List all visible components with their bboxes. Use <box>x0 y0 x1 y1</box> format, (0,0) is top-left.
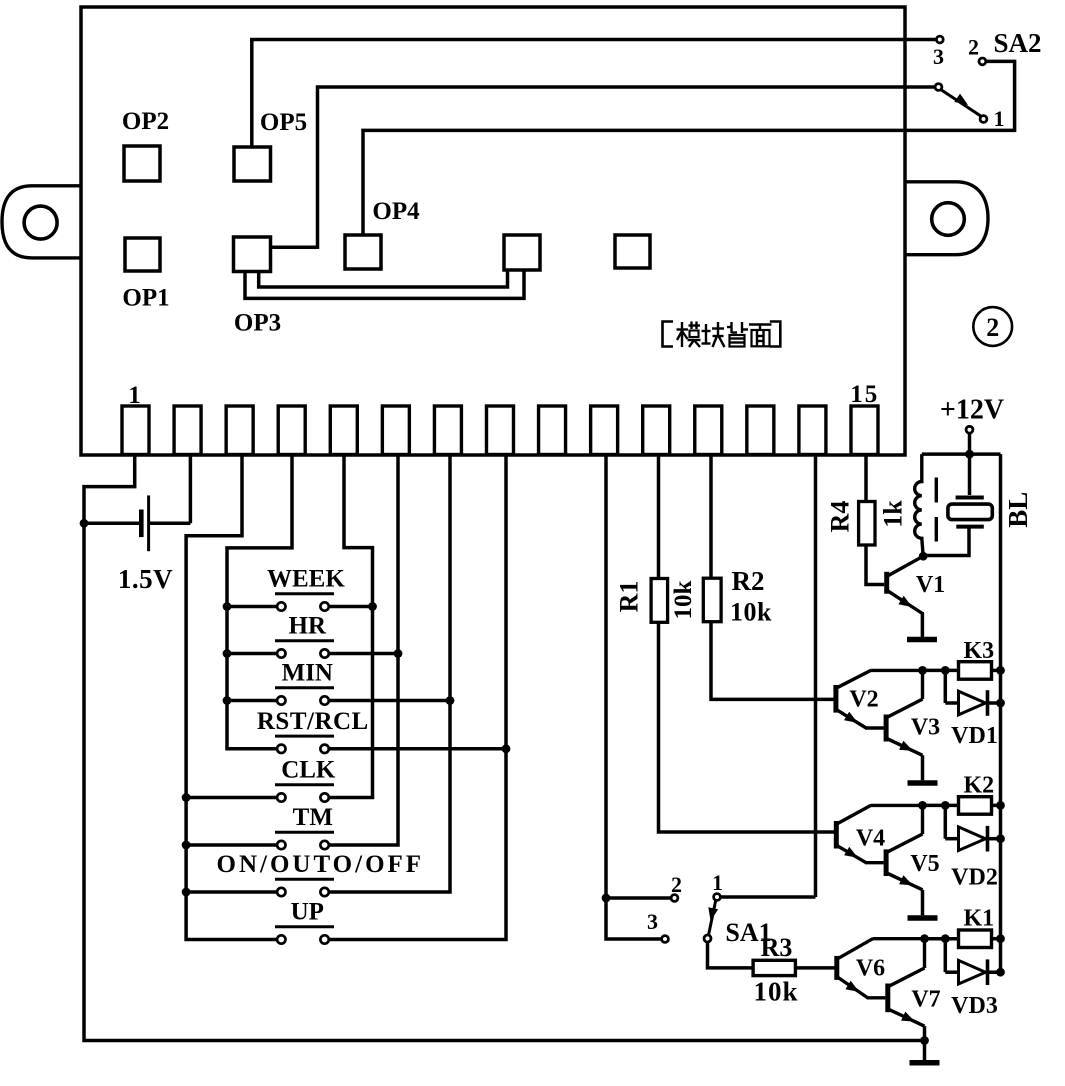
svg-text:10k: 10k <box>753 977 798 1007</box>
svg-text:VD1: VD1 <box>951 723 998 749</box>
svg-text:V6: V6 <box>856 956 885 982</box>
svg-text:2: 2 <box>968 35 979 60</box>
svg-text:K3: K3 <box>963 638 994 664</box>
svg-text:VD3: VD3 <box>951 993 998 1019</box>
svg-text:3: 3 <box>933 44 944 69</box>
svg-text:OP2: OP2 <box>122 108 169 135</box>
svg-text:OP4: OP4 <box>372 198 420 225</box>
svg-text:+12V: +12V <box>940 395 1004 426</box>
svg-text:MIN: MIN <box>282 660 333 687</box>
svg-text:1.5V: 1.5V <box>118 564 173 594</box>
svg-text:3: 3 <box>647 909 658 934</box>
svg-text:10k: 10k <box>730 597 772 626</box>
svg-text:WEEK: WEEK <box>267 566 345 593</box>
svg-text:K1: K1 <box>963 906 994 932</box>
svg-text:ON/OUTO/OFF: ON/OUTO/OFF <box>217 851 425 878</box>
svg-text:1: 1 <box>128 382 141 409</box>
svg-text:UP: UP <box>291 899 324 926</box>
svg-text:2: 2 <box>986 313 999 342</box>
svg-text:HR: HR <box>289 613 327 640</box>
svg-text:BL: BL <box>1003 492 1033 528</box>
svg-text:1k: 1k <box>879 500 908 528</box>
svg-text:V5: V5 <box>910 851 939 877</box>
svg-text:15: 15 <box>850 381 879 408</box>
svg-text:V7: V7 <box>911 987 940 1013</box>
svg-text:SA2: SA2 <box>993 28 1041 58</box>
svg-text:RST/RCL: RST/RCL <box>257 708 369 735</box>
svg-text:OP1: OP1 <box>122 285 169 312</box>
svg-text:OP3: OP3 <box>234 310 281 337</box>
svg-text:R3: R3 <box>761 933 793 962</box>
svg-text:1: 1 <box>994 106 1005 131</box>
svg-text:2: 2 <box>671 872 682 897</box>
svg-text:TM: TM <box>293 804 333 831</box>
svg-text:CLK: CLK <box>281 757 336 784</box>
svg-text:V3: V3 <box>911 715 940 741</box>
svg-text:R1: R1 <box>615 581 644 613</box>
svg-text:OP5: OP5 <box>260 109 307 136</box>
svg-text:V1: V1 <box>916 572 945 598</box>
svg-text:K2: K2 <box>963 773 994 799</box>
svg-text:R2: R2 <box>732 566 765 596</box>
svg-text:VD2: VD2 <box>951 865 998 891</box>
svg-text:R4: R4 <box>826 501 855 533</box>
svg-text:V2: V2 <box>849 687 878 713</box>
svg-text:10k: 10k <box>670 580 697 619</box>
svg-text:V4: V4 <box>856 826 885 852</box>
svg-text:1: 1 <box>712 870 723 895</box>
